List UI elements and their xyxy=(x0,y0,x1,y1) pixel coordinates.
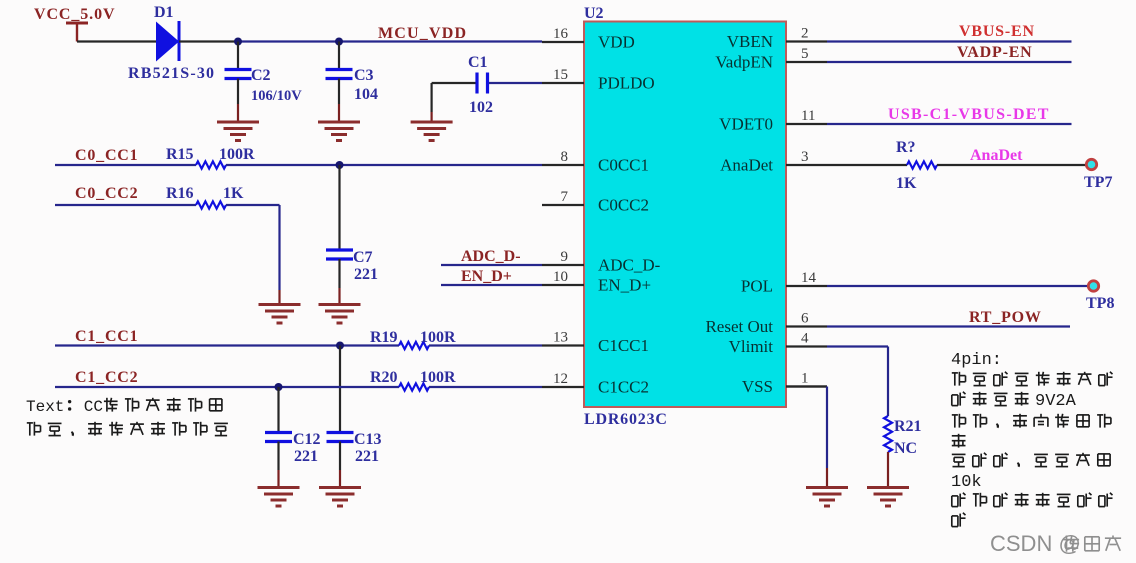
wire VBUS-EN xyxy=(827,40,1072,42)
wire xyxy=(786,385,827,387)
wire xyxy=(226,204,280,206)
wire xyxy=(339,346,341,433)
ground xyxy=(217,122,259,141)
svg-text:4pin:: 4pin: xyxy=(951,351,1002,370)
pin 6 stub xyxy=(786,325,827,327)
svg-text:C3: C3 xyxy=(354,67,374,84)
power flag VCC_5.0V xyxy=(34,6,115,42)
svg-text:221: 221 xyxy=(354,266,378,283)
watermark CSDN xyxy=(990,531,1121,556)
pin 14 stub xyxy=(786,285,827,287)
svg-text:AnaDet: AnaDet xyxy=(720,156,773,175)
pin 1 stub xyxy=(786,385,827,387)
wire xyxy=(237,104,239,122)
svg-text:9V2A: 9V2A xyxy=(1035,392,1077,411)
capacitor C12 xyxy=(265,431,321,465)
text note right line5 xyxy=(952,434,966,448)
wire xyxy=(55,164,196,166)
svg-text:CC: CC xyxy=(84,398,103,416)
svg-text:D1: D1 xyxy=(154,4,174,21)
pin 3 stub xyxy=(786,164,827,166)
svg-text:C12: C12 xyxy=(293,431,321,448)
ground xyxy=(867,488,909,507)
svg-text:C2: C2 xyxy=(251,67,271,84)
svg-text:1: 1 xyxy=(801,371,809,387)
text note right line2 xyxy=(952,372,966,386)
wire xyxy=(277,442,279,471)
svg-text:ADC_D-: ADC_D- xyxy=(598,256,661,275)
svg-text:C13: C13 xyxy=(354,431,382,448)
pin 11 stub xyxy=(786,123,827,125)
pin 7 stub xyxy=(542,204,584,206)
wire xyxy=(277,470,279,488)
capacitor C2 xyxy=(225,67,303,104)
pin 16 stub xyxy=(542,41,584,43)
svg-text:C0_CC1: C0_CC1 xyxy=(75,147,138,164)
wire xyxy=(887,452,889,488)
resistor R15 xyxy=(166,146,255,169)
wire xyxy=(431,83,433,112)
svg-text:LDR6023C: LDR6023C xyxy=(584,411,668,428)
ground xyxy=(259,305,301,324)
svg-text:U2: U2 xyxy=(584,5,604,22)
svg-text:7: 7 xyxy=(561,189,569,205)
wire xyxy=(77,40,157,42)
diode D1 xyxy=(128,4,215,82)
wire MCU_VDD xyxy=(235,40,542,42)
capacitor C3 xyxy=(326,67,379,103)
text note right line3 xyxy=(952,392,966,406)
ground xyxy=(319,305,361,324)
svg-text:VBUS-EN: VBUS-EN xyxy=(959,23,1035,40)
svg-text:14: 14 xyxy=(801,270,817,286)
svg-text:10k: 10k xyxy=(951,473,982,492)
svg-text:PDLDO: PDLDO xyxy=(598,74,655,93)
resistor R? xyxy=(896,139,937,192)
ground xyxy=(411,122,453,141)
node junction xyxy=(275,383,283,391)
svg-text:EN_D+: EN_D+ xyxy=(598,276,651,295)
svg-text:4: 4 xyxy=(801,331,809,347)
svg-text:11: 11 xyxy=(801,108,815,124)
wire xyxy=(432,82,476,84)
svg-text:C0CC1: C0CC1 xyxy=(598,156,649,175)
text note right line8 xyxy=(952,493,966,507)
resistor R19 xyxy=(370,329,456,349)
capacitor C13 xyxy=(327,431,382,465)
svg-text:C1_CC2: C1_CC2 xyxy=(75,369,138,386)
svg-text:VSS: VSS xyxy=(742,377,773,396)
wire xyxy=(277,387,279,433)
svg-text:VDD: VDD xyxy=(598,33,635,52)
svg-text:Vlimit: Vlimit xyxy=(729,337,774,356)
wire VADP-EN xyxy=(827,61,1072,63)
text note right line6 xyxy=(952,454,966,466)
svg-text:C1CC2: C1CC2 xyxy=(598,378,649,397)
svg-text:R15: R15 xyxy=(166,146,194,163)
svg-text:C0_CC2: C0_CC2 xyxy=(75,185,138,202)
resistor R20 xyxy=(370,369,456,391)
text note right line4 xyxy=(952,414,966,428)
pin 10 stub xyxy=(542,284,584,286)
wire xyxy=(338,79,340,105)
svg-text:C7: C7 xyxy=(353,249,373,266)
ground xyxy=(318,122,360,141)
wire xyxy=(278,205,280,290)
svg-text:12: 12 xyxy=(553,371,568,387)
wire xyxy=(826,468,828,488)
wire xyxy=(338,104,340,122)
test point TP8 xyxy=(1086,281,1114,312)
svg-text:5: 5 xyxy=(801,46,809,62)
ground xyxy=(258,488,300,507)
svg-text:15: 15 xyxy=(553,67,568,83)
pin 5 stub xyxy=(786,61,827,63)
resistor R16 xyxy=(166,185,244,209)
wire xyxy=(179,40,235,42)
wire xyxy=(429,386,542,388)
svg-text:ADC_D-: ADC_D- xyxy=(461,248,521,265)
svg-text:VBEN: VBEN xyxy=(727,32,773,51)
pin 2 stub xyxy=(786,40,827,42)
resistor R21 xyxy=(884,416,922,457)
pin 4 stub xyxy=(786,345,827,347)
node junction xyxy=(234,38,242,46)
svg-text:TP8: TP8 xyxy=(1086,295,1114,312)
wire xyxy=(55,386,399,388)
node junction xyxy=(336,161,344,169)
wire xyxy=(55,204,196,206)
svg-text:2: 2 xyxy=(801,26,809,42)
wire xyxy=(338,42,340,70)
wire USB-C1-VBUS-DET xyxy=(827,123,1072,125)
ground xyxy=(806,488,848,507)
svg-text:R16: R16 xyxy=(166,185,194,202)
wire xyxy=(237,42,239,70)
svg-text:VADP-EN: VADP-EN xyxy=(957,44,1033,61)
test point TP7 xyxy=(1084,159,1112,191)
pin 15 stub xyxy=(542,82,584,84)
wire xyxy=(338,259,340,288)
wire xyxy=(441,264,542,266)
wire xyxy=(827,345,888,347)
wire xyxy=(887,347,889,417)
svg-text:MCU_VDD: MCU_VDD xyxy=(378,25,467,42)
svg-text:C1_CC1: C1_CC1 xyxy=(75,328,138,345)
svg-text:C0CC2: C0CC2 xyxy=(598,196,649,215)
wire xyxy=(339,442,341,471)
svg-text:Reset Out: Reset Out xyxy=(705,317,773,336)
capacitor C1 xyxy=(468,54,493,116)
wire xyxy=(237,79,239,105)
wire xyxy=(937,164,1086,166)
wire xyxy=(338,288,340,305)
svg-text:16: 16 xyxy=(553,26,569,42)
svg-text:EN_D+: EN_D+ xyxy=(461,268,512,285)
text note left line2 xyxy=(27,422,41,436)
svg-text:221: 221 xyxy=(355,448,379,465)
svg-text:POL: POL xyxy=(741,277,773,296)
wire xyxy=(55,344,399,346)
svg-text:100R: 100R xyxy=(420,329,456,346)
node junction xyxy=(335,38,343,46)
wire xyxy=(827,164,907,166)
svg-text:6: 6 xyxy=(801,311,809,327)
wire xyxy=(339,470,341,488)
pin 13 stub xyxy=(542,344,584,346)
ground xyxy=(319,488,361,507)
svg-text:100R: 100R xyxy=(219,146,255,163)
wire xyxy=(226,164,542,166)
svg-text:106/10V: 106/10V xyxy=(251,88,302,104)
wire xyxy=(278,290,280,305)
pin 8 stub xyxy=(542,164,584,166)
svg-text:R?: R? xyxy=(896,139,916,156)
wire xyxy=(489,82,542,84)
svg-text:8: 8 xyxy=(561,149,569,165)
svg-text:VCC_5.0V: VCC_5.0V xyxy=(34,6,115,23)
svg-text:100R: 100R xyxy=(420,369,456,386)
svg-text:3: 3 xyxy=(801,149,809,165)
capacitor C7 xyxy=(326,249,378,283)
wire RT_POW xyxy=(827,325,1070,327)
svg-text:TP7: TP7 xyxy=(1084,174,1112,191)
svg-text:R21: R21 xyxy=(894,418,922,435)
svg-text:NC: NC xyxy=(894,440,917,457)
svg-text:AnaDet: AnaDet xyxy=(970,147,1023,164)
svg-text:R19: R19 xyxy=(370,329,398,346)
wire xyxy=(431,112,433,122)
svg-text:10: 10 xyxy=(553,269,568,285)
svg-text:1K: 1K xyxy=(223,185,244,202)
svg-text:VDET0: VDET0 xyxy=(719,115,773,134)
svg-text:1K: 1K xyxy=(896,175,917,192)
node junction xyxy=(336,342,344,350)
svg-text:102: 102 xyxy=(469,99,493,116)
svg-text:104: 104 xyxy=(354,86,378,103)
svg-text:13: 13 xyxy=(553,330,568,346)
svg-text:R20: R20 xyxy=(370,369,398,386)
svg-text:9: 9 xyxy=(561,249,569,265)
svg-text:C1CC1: C1CC1 xyxy=(598,336,649,355)
wire xyxy=(826,387,828,469)
pin 9 stub xyxy=(542,264,584,266)
svg-text:221: 221 xyxy=(294,448,318,465)
text note right line9 xyxy=(952,513,966,527)
svg-text:VadpEN: VadpEN xyxy=(715,53,773,72)
svg-text:RB521S-30: RB521S-30 xyxy=(128,65,215,82)
op-amp U2 body LDR6023C xyxy=(584,5,786,428)
svg-text:Text: Text xyxy=(26,398,64,416)
svg-text:RT_POW: RT_POW xyxy=(969,309,1042,326)
wire xyxy=(429,344,542,346)
svg-text:C1: C1 xyxy=(468,54,488,71)
svg-text:USB-C1-VBUS-DET: USB-C1-VBUS-DET xyxy=(888,106,1050,123)
wire POL xyxy=(827,285,1088,287)
wire xyxy=(338,165,340,250)
pin 12 stub xyxy=(542,386,584,388)
wire xyxy=(441,284,542,286)
